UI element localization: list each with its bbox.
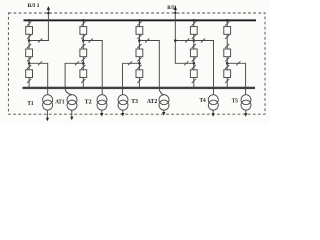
riser to T3 bbox=[121, 63, 123, 94]
transformer T5 windings bbox=[241, 95, 251, 110]
bay 3 node J32 bbox=[138, 62, 141, 65]
bay 3 drop from bus W1 bbox=[138, 20, 140, 26]
bay 1 disconnector QS14 bbox=[27, 58, 31, 62]
disconnector on wire (bay4 lower) bbox=[184, 61, 188, 65]
transformer T4 load feeder bbox=[212, 110, 214, 114]
bay 4 breaker Q41 bbox=[190, 27, 197, 35]
bay 4 disconnector QS44 bbox=[192, 58, 196, 62]
bay 2 drop from bus W1 bbox=[82, 20, 84, 26]
bay 5 breaker Q53 bbox=[224, 70, 231, 78]
svg-text:ВЛ 1: ВЛ 1 bbox=[28, 3, 40, 9]
disconnector on wire (bay4 upper left) bbox=[185, 39, 189, 43]
bay 1 disconnector QS11 bbox=[27, 22, 31, 26]
bay 5 disconnector QS54 bbox=[225, 58, 229, 62]
node VL1 fence crossing bbox=[47, 12, 50, 15]
svg-text:Т1: Т1 bbox=[27, 100, 33, 107]
transformer AT2 load arrow bbox=[162, 112, 165, 116]
bay 4 node J42 bbox=[193, 62, 196, 65]
bay 5 disconnector QS56 bbox=[225, 79, 229, 83]
bay 1 link bbox=[28, 57, 30, 70]
riser to T2 bbox=[101, 41, 103, 95]
svg-text:Т5: Т5 bbox=[232, 97, 239, 104]
wire bay2 J21 right bbox=[83, 40, 102, 42]
bay 5 disconnector QS52 bbox=[225, 35, 229, 39]
bay 4 disconnector QS43 bbox=[192, 44, 196, 48]
riser to T5 bbox=[245, 63, 247, 94]
transformer AT2 windings bbox=[159, 95, 169, 110]
bay 2 disconnector QS22 bbox=[81, 35, 85, 39]
bay 5 breaker Q51 bbox=[224, 27, 231, 35]
transformer T1 load arrow bbox=[46, 118, 49, 122]
bay 1 disconnector QS16 bbox=[27, 79, 31, 83]
bay 1 node J11 bbox=[28, 39, 31, 42]
transformer AT1 load feeder bbox=[71, 110, 73, 118]
transformer T5 load feeder bbox=[245, 110, 247, 114]
bay 3 link bbox=[138, 34, 140, 49]
bay 2 link bbox=[82, 57, 84, 70]
bay 1 link bbox=[28, 34, 30, 49]
svg-text:Т3: Т3 bbox=[131, 98, 138, 105]
line VL2 riser bbox=[174, 9, 176, 64]
transformer T2 load arrow bbox=[100, 113, 103, 117]
wire bay2 J22 left bbox=[65, 62, 84, 64]
svg-text:Т2: Т2 bbox=[85, 98, 92, 105]
bay 3 disconnector QS32 bbox=[137, 35, 141, 39]
line VL1 riser bbox=[47, 9, 49, 41]
riser to AT2 bbox=[158, 41, 160, 89]
bay 3 disconnector QS31 bbox=[137, 22, 141, 26]
wire bay3 J32 left bbox=[122, 62, 139, 64]
bay 3 disconnector QS35 bbox=[137, 65, 141, 69]
riser to AT1 bbox=[64, 63, 66, 88]
bay 5 disconnector QS55 bbox=[225, 65, 229, 69]
wire bay4 J41 span bbox=[175, 40, 214, 42]
bay 5 link to bus W2 bbox=[226, 78, 228, 88]
disconnector on wire (bay5 lower) bbox=[236, 61, 240, 65]
bay 4 link to bus W2 bbox=[193, 78, 195, 88]
node VL2 tap bbox=[174, 39, 177, 42]
bay 4 drop from bus W1 bbox=[193, 20, 195, 26]
svg-text:АТ1: АТ1 bbox=[55, 98, 64, 105]
bay 5 junction on bus W1 bbox=[226, 19, 229, 22]
bay 5 breaker Q52 bbox=[224, 49, 231, 57]
bay 2 junction on bus W1 bbox=[82, 19, 85, 22]
svg-text:Т4: Т4 bbox=[200, 97, 207, 104]
bay 4 node J41 bbox=[193, 39, 196, 42]
bay 4 disconnector QS46 bbox=[192, 79, 196, 83]
bay 2 breaker Q22 bbox=[80, 49, 87, 57]
bay 1 breaker Q12 bbox=[26, 49, 33, 57]
bay 1 link to bus W2 bbox=[28, 78, 30, 88]
bay 3 junction on bus W1 bbox=[138, 19, 141, 22]
bus W2 (lower 110kV circuit) bbox=[23, 87, 256, 89]
transformer T5 load arrow bbox=[244, 113, 247, 117]
bus W1 (upper 110kV circuit) bbox=[24, 19, 257, 21]
bay 1 disconnector QS12 bbox=[27, 35, 31, 39]
AT1 feeder jog bbox=[65, 89, 72, 95]
bay 3 disconnector QS36 bbox=[137, 79, 141, 83]
bay 4 breaker Q42 bbox=[190, 49, 197, 57]
bay 5 disconnector QS53 bbox=[225, 44, 229, 48]
bay 4 link bbox=[193, 57, 195, 70]
bay 1 disconnector QS13 bbox=[27, 44, 31, 48]
AT2 feeder jog bbox=[159, 89, 164, 95]
bay 3 link to bus W2 bbox=[138, 78, 140, 88]
bay 5 drop from bus W1 bbox=[226, 20, 228, 26]
disconnector on wire (bay4 upper right) bbox=[201, 39, 205, 43]
bay 2 node J22 bbox=[82, 62, 85, 65]
bay 3 node J31 bbox=[138, 39, 141, 42]
bay 4 junction on bus W1 bbox=[192, 19, 195, 22]
svg-text:ВЛ2: ВЛ2 bbox=[167, 5, 176, 11]
disconnector on wire (bay2 upper) bbox=[89, 39, 93, 43]
riser to T1 bbox=[47, 63, 49, 94]
bay 1 disconnector QS15 bbox=[27, 65, 31, 69]
transformer AT1 windings bbox=[67, 95, 77, 110]
svg-text:АТ2: АТ2 bbox=[147, 98, 158, 105]
transformer T3 load arrow bbox=[121, 113, 124, 117]
bay 3 breaker Q31 bbox=[136, 27, 143, 35]
disconnector on wire (bay1 upper) bbox=[38, 39, 42, 43]
wire bay1 J12 right bbox=[29, 62, 48, 64]
wire bay1 J11 to VL1 bbox=[29, 40, 49, 42]
bay 5 node J52 bbox=[226, 62, 229, 65]
bay 4 breaker Q43 bbox=[190, 70, 197, 78]
bay 4 disconnector QS42 bbox=[192, 35, 196, 39]
transformer AT1 load arrow bbox=[70, 117, 73, 121]
bay 2 breaker Q21 bbox=[80, 27, 87, 35]
disconnector on wire (bay2 lower) bbox=[75, 61, 79, 65]
transformer T4 load arrow bbox=[212, 113, 215, 117]
bay 2 link to bus W2 bbox=[82, 78, 84, 88]
transformer T1 load feeder bbox=[46, 110, 48, 119]
bay 2 disconnector QS24 bbox=[81, 58, 85, 62]
bay 1 breaker Q13 bbox=[26, 70, 33, 78]
transformer T3 windings bbox=[118, 95, 128, 110]
bay 2 link bbox=[82, 34, 84, 49]
bay 5 link bbox=[226, 34, 228, 49]
disconnector on wire (bay3 lower) bbox=[128, 61, 132, 65]
bay 5 disconnector QS51 bbox=[225, 22, 229, 26]
riser to T4 bbox=[213, 41, 215, 95]
transformer T4 windings bbox=[208, 95, 218, 110]
bay 1 drop from bus W1 bbox=[28, 20, 30, 26]
bay 4 disconnector QS41 bbox=[192, 22, 196, 26]
transformer T2 load feeder bbox=[101, 110, 103, 114]
line VL1 arrow bbox=[47, 6, 50, 10]
transformer T1 windings bbox=[43, 95, 53, 110]
bay 3 disconnector QS33 bbox=[137, 44, 141, 48]
bay 4 disconnector QS45 bbox=[192, 65, 196, 69]
bay 3 breaker Q32 bbox=[136, 49, 143, 57]
bay 2 disconnector QS26 bbox=[81, 79, 85, 83]
disconnector on wire (bay3 upper) bbox=[145, 39, 149, 43]
line VL2 arrow bbox=[174, 6, 177, 10]
bay 2 disconnector QS23 bbox=[81, 44, 85, 48]
wire bay3 J31 right bbox=[139, 40, 159, 42]
bay 1 node J12 bbox=[28, 62, 31, 65]
transformer AT2 load feeder bbox=[163, 110, 165, 113]
substation fence boundary (dashed frame) bbox=[8, 13, 265, 114]
bay 2 breaker Q23 bbox=[80, 70, 87, 78]
node VL2 fence crossing bbox=[174, 12, 176, 14]
wire VL2 to bay4 J42 bbox=[175, 62, 194, 64]
wire bay5 J52 right bbox=[227, 62, 246, 64]
bay 2 disconnector QS21 bbox=[81, 22, 85, 26]
bay 4 link bbox=[193, 34, 195, 49]
bay 5 link bbox=[226, 57, 228, 70]
transformer T3 load feeder bbox=[122, 110, 124, 114]
disconnector on wire (bay1 lower) bbox=[38, 61, 42, 65]
bay 3 breaker Q33 bbox=[136, 70, 143, 78]
transformer T2 windings bbox=[97, 95, 107, 110]
bay 3 disconnector QS34 bbox=[137, 58, 141, 62]
bay 1 breaker Q11 bbox=[26, 27, 33, 35]
bay 3 link bbox=[138, 57, 140, 70]
bay 2 node J21 bbox=[82, 39, 85, 42]
bay 1 junction on bus W1 bbox=[28, 19, 31, 22]
bay 2 disconnector QS25 bbox=[81, 65, 85, 69]
